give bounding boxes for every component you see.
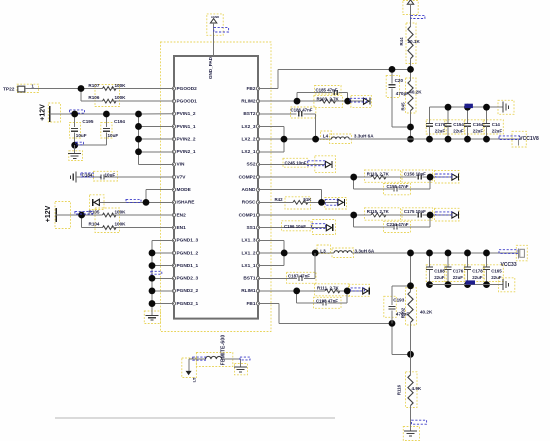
svg-text:FBMITE-600: FBMITE-600 — [221, 335, 227, 366]
svg-text:LX1_3: LX1_3 — [242, 238, 256, 244]
svg-text:BST2: BST2 — [243, 111, 256, 117]
svg-text:C165: C165 — [491, 268, 502, 273]
svg-text:40.2K: 40.2K — [420, 310, 433, 315]
svg-text:470pF: 470pF — [396, 91, 409, 96]
svg-text:PGOOD1: PGOOD1 — [177, 98, 198, 104]
svg-text:LX1_1: LX1_1 — [242, 263, 256, 269]
svg-text:VCC1V8: VCC1V8 — [519, 136, 539, 142]
svg-text:22uF: 22uF — [491, 275, 502, 280]
svg-text:C187 47nF: C187 47nF — [288, 274, 310, 279]
svg-text:C178: C178 — [472, 268, 483, 273]
svg-text:40.2K: 40.2K — [409, 90, 422, 95]
svg-text:+12V: +12V — [40, 104, 47, 121]
svg-text:3.3uH 6A: 3.3uH 6A — [355, 249, 375, 254]
svg-text:EN2: EN2 — [177, 212, 187, 218]
svg-text:FB2: FB2 — [247, 86, 256, 92]
svg-text:PGOOD2: PGOOD2 — [177, 86, 198, 92]
svg-text:R44: R44 — [399, 37, 404, 46]
svg-text:10uF: 10uF — [105, 173, 116, 178]
svg-text:C14: C14 — [492, 122, 501, 127]
svg-text:COMP2: COMP2 — [239, 174, 256, 180]
svg-text:C175 10nF: C175 10nF — [404, 209, 426, 214]
svg-text:PGND1_3: PGND1_3 — [177, 238, 199, 244]
svg-text:GND_PAD: GND_PAD — [208, 56, 213, 79]
svg-text:10uF: 10uF — [76, 133, 87, 138]
svg-text:10uF: 10uF — [108, 133, 119, 138]
svg-text:C224 47nF: C224 47nF — [387, 222, 409, 227]
svg-text:LX2_1: LX2_1 — [242, 149, 256, 155]
svg-text:22uF: 22uF — [472, 275, 483, 280]
svg-text:R110, 2.7K: R110, 2.7K — [367, 171, 390, 176]
svg-text:C20: C20 — [395, 78, 404, 83]
svg-text:C198 47nF: C198 47nF — [316, 299, 338, 304]
svg-text:R104: R104 — [89, 222, 100, 227]
svg-text:C194: C194 — [114, 119, 125, 124]
svg-text:C176: C176 — [453, 268, 464, 273]
svg-text:PGND2_2: PGND2_2 — [177, 288, 199, 294]
svg-text:FB1: FB1 — [247, 301, 256, 307]
svg-text:PGND1_2: PGND1_2 — [177, 250, 199, 256]
svg-text:C176: C176 — [435, 122, 446, 127]
svg-text:C155 47nF: C155 47nF — [387, 184, 409, 189]
svg-text:C184: C184 — [82, 173, 93, 178]
svg-text:ROSC: ROSC — [242, 200, 256, 206]
svg-text:R45: R45 — [400, 102, 405, 111]
svg-text:C196 10nF: C196 10nF — [284, 224, 306, 229]
svg-text:C195: C195 — [82, 119, 93, 124]
svg-text:LX2_3: LX2_3 — [242, 124, 256, 130]
svg-text:V7V: V7V — [177, 174, 187, 180]
svg-text:51K: 51K — [303, 197, 312, 202]
svg-text:PVIN2_1: PVIN2_1 — [177, 149, 196, 155]
svg-text:TP22: TP22 — [3, 87, 15, 93]
svg-text:R42: R42 — [275, 197, 284, 202]
svg-text:LX2_2: LX2_2 — [242, 136, 256, 142]
svg-text:BST1: BST1 — [243, 276, 256, 282]
svg-text:C245 10nF: C245 10nF — [285, 160, 307, 165]
svg-text:PVIN1_1: PVIN1_1 — [177, 124, 196, 130]
svg-text:AGND: AGND — [211, 15, 219, 19]
svg-text:PGND2_1: PGND2_1 — [177, 301, 199, 307]
svg-text:VIN: VIN — [177, 162, 185, 168]
svg-text:SS2: SS2 — [247, 162, 256, 168]
svg-text:RLIM2: RLIM2 — [241, 98, 256, 104]
svg-text:C154: C154 — [453, 122, 464, 127]
svg-text:22uF: 22uF — [473, 128, 484, 133]
svg-text:EN1: EN1 — [177, 225, 187, 231]
svg-text:C193: C193 — [393, 297, 404, 302]
svg-text:22uF: 22uF — [492, 128, 503, 133]
svg-text:L5: L5 — [192, 377, 197, 382]
svg-text:MODE: MODE — [177, 187, 191, 193]
svg-text:R111, 2.7K: R111, 2.7K — [317, 286, 340, 291]
svg-text:L4: L4 — [323, 134, 329, 139]
svg-text:C188: C188 — [434, 268, 445, 273]
svg-text:22uF: 22uF — [453, 128, 464, 133]
svg-text:4.9K: 4.9K — [412, 386, 422, 391]
svg-text:C185 47nF: C185 47nF — [316, 87, 338, 92]
svg-text:PGND1_1: PGND1_1 — [177, 263, 199, 269]
svg-text:VCC33: VCC33 — [501, 262, 517, 268]
svg-text:RLIM1: RLIM1 — [241, 288, 256, 294]
svg-text:C164: C164 — [473, 122, 484, 127]
svg-text:22uF: 22uF — [434, 275, 445, 280]
svg-text:SS1: SS1 — [247, 225, 256, 231]
svg-text:ISHARE: ISHARE — [177, 200, 195, 206]
svg-text:20.1K: 20.1K — [408, 39, 421, 44]
svg-text:R116: R116 — [396, 384, 401, 395]
svg-text:100K: 100K — [115, 83, 127, 88]
svg-text:100K: 100K — [115, 222, 127, 227]
svg-text:3.3uH 6A: 3.3uH 6A — [354, 134, 374, 139]
svg-text:PVIN1_2: PVIN1_2 — [177, 111, 196, 117]
svg-text:+12V: +12V — [45, 205, 52, 222]
svg-text:100K: 100K — [115, 209, 127, 214]
svg-text:R103, 2.7K: R103, 2.7K — [317, 97, 340, 102]
svg-text:C156 10nF: C156 10nF — [404, 171, 426, 176]
svg-text:22uF: 22uF — [435, 128, 446, 133]
svg-text:R106: R106 — [88, 95, 99, 100]
svg-text:COMP1: COMP1 — [239, 212, 256, 218]
svg-text:22uF: 22uF — [453, 275, 464, 280]
svg-text:PGND2_3: PGND2_3 — [177, 276, 199, 282]
svg-text:100K: 100K — [115, 95, 127, 100]
svg-text:C186 47nF: C186 47nF — [291, 107, 313, 112]
svg-text:L3: L3 — [320, 249, 326, 254]
svg-text:R107: R107 — [88, 83, 99, 88]
svg-text:R115, 2.7K: R115, 2.7K — [367, 209, 390, 214]
svg-text:AGND: AGND — [242, 187, 257, 193]
svg-text:R102: R102 — [401, 307, 406, 318]
svg-text:PVIN2_2: PVIN2_2 — [177, 136, 196, 142]
svg-text:LX1_2: LX1_2 — [242, 250, 256, 256]
